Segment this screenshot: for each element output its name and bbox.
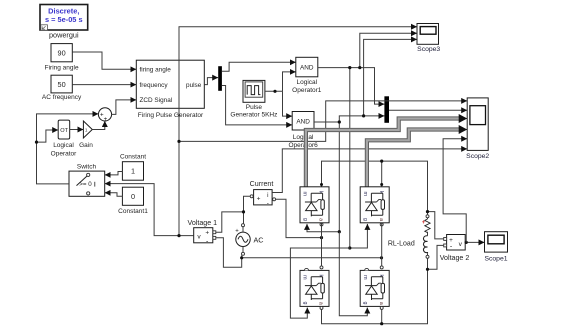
svg-text:AND: AND xyxy=(296,119,310,126)
svg-text:Scope1: Scope1 xyxy=(484,256,507,263)
svg-text:s = 5e-05 s: s = 5e-05 s xyxy=(45,15,83,24)
thyristor4 anode port circle xyxy=(380,306,383,309)
thyristor3 unconnected m port bump xyxy=(305,268,309,270)
wire: to AND1 input2 xyxy=(283,72,296,91)
svg-text:firing angle: firing angle xyxy=(140,67,172,74)
constant block Constant1 (0) xyxy=(118,187,148,215)
gain block xyxy=(79,121,93,149)
svg-text:Operator: Operator xyxy=(51,150,77,157)
thyristor T2 xyxy=(360,187,389,223)
svg-text:+: + xyxy=(104,116,108,123)
wire: V1 v output to switch control xyxy=(105,184,194,236)
wire: mux output to Scope2 input2 xyxy=(389,109,467,111)
svg-text:+: + xyxy=(257,195,261,202)
svg-text:+: + xyxy=(205,230,209,237)
svg-text:Voltage 1: Voltage 1 xyxy=(188,219,218,227)
wire: AND2 gate branch to thyristor4 gate xyxy=(339,232,367,316)
svg-text:OT: OT xyxy=(60,128,68,134)
thyristor3 anode port circle xyxy=(320,306,323,309)
wire: demux out2 to AND2 input2 xyxy=(222,86,292,125)
current measurement block xyxy=(250,180,276,207)
RL-Load series branch xyxy=(388,212,430,270)
thyristor T1 xyxy=(300,187,329,223)
svg-text:Gain: Gain xyxy=(79,142,93,149)
svg-text:>= 0: >= 0 xyxy=(79,181,92,188)
wire: Constant1 0 to switch input 3 xyxy=(105,193,123,197)
svg-text:Logical: Logical xyxy=(296,79,317,86)
thick wire: thyristor2 measurement to Scope2 input4 xyxy=(367,130,461,187)
logical operator AND1 xyxy=(292,57,322,94)
thyristor3 cathode port circle xyxy=(320,266,323,269)
subsystem U1 Firing Pulse Generator xyxy=(136,60,204,119)
wire: pulse output to demux xyxy=(204,78,218,85)
scope Scope3 xyxy=(417,24,440,54)
wire: DC+ bus from thyristor cathodes to RL load top xyxy=(322,161,428,212)
svg-text:0: 0 xyxy=(131,192,135,201)
sum block (zero-cross sum) xyxy=(98,108,111,123)
svg-text:AC: AC xyxy=(254,235,264,244)
wire: AND1 gate branch to thyristor3 gate xyxy=(290,248,349,318)
svg-text:Switch: Switch xyxy=(77,163,97,170)
svg-text:1: 1 xyxy=(131,167,135,176)
wire: constant 50 to frequency input xyxy=(72,84,136,86)
wire: V1 branch to Scope2 input1 xyxy=(179,101,467,141)
svg-text:Firing angle: Firing angle xyxy=(45,64,79,71)
switch block xyxy=(69,163,105,196)
svg-text:Scope2: Scope2 xyxy=(466,153,489,160)
svg-text:Operator1: Operator1 xyxy=(292,87,322,94)
wire: thyristor2 anode / thyristor4 cathode vertical xyxy=(381,223,383,266)
wire: AND1 branch down to thyristor gates xyxy=(349,68,351,248)
svg-text:+: + xyxy=(422,219,426,226)
svg-text:powergui: powergui xyxy=(49,31,79,40)
svg-text:RL-Load: RL-Load xyxy=(388,241,415,248)
wire: AND2 output to mux input2 xyxy=(314,116,384,122)
thyristor T3 xyxy=(300,270,329,306)
wire: switch output to sum left input xyxy=(37,114,99,184)
thyristor2 anode port circle xyxy=(380,223,383,226)
thyristor4 unconnected m port bump xyxy=(365,268,369,270)
wire: branch to NOT input xyxy=(37,130,59,142)
svg-text:AND: AND xyxy=(300,65,314,72)
wire: DC- bus from thyristor anodes to RL load bottom xyxy=(322,269,428,323)
svg-text:Logical: Logical xyxy=(53,142,74,149)
constant block Constant (1) xyxy=(120,154,146,181)
logical operator AND2 (Operator5) xyxy=(288,112,318,150)
svg-text:+: + xyxy=(235,228,239,234)
wire: thyristor1 anode / thyristor3 cathode vertical xyxy=(321,223,323,266)
svg-text:pulse: pulse xyxy=(186,82,202,89)
wire: Constant 1 to switch input 1 xyxy=(105,172,123,175)
svg-text:i: i xyxy=(267,192,268,199)
scope Scope1 xyxy=(484,232,507,263)
voltage measurement V2 xyxy=(440,235,470,262)
svg-text:-: - xyxy=(267,200,269,207)
wire: AND2 gate branch to thyristor1 gate xyxy=(307,224,339,232)
wire: NOT to Gain xyxy=(70,129,84,131)
svg-text:Logical: Logical xyxy=(293,134,314,141)
wire: V2 branch to Scope2 input5 xyxy=(443,139,467,243)
wire: V2 output to Scope1 xyxy=(465,241,484,243)
wire: Gain to sum bottom input xyxy=(92,121,105,130)
wire: AND1 gate branch to thyristor2 gate xyxy=(350,224,368,248)
svg-text:Generator 5KHz: Generator 5KHz xyxy=(230,112,277,119)
wire: AND2 branch down to thyristor1 gate xyxy=(338,122,340,232)
wire: to AND2 input1 xyxy=(283,91,293,116)
wire: constant 90 to firing angle input xyxy=(72,52,136,69)
wire: sum output to ZCD Signal input xyxy=(112,100,137,115)
thyristor1 anode port circle xyxy=(320,223,323,226)
voltage measurement V1 xyxy=(188,219,218,246)
svg-text:ZCD Signal: ZCD Signal xyxy=(140,97,173,104)
wire: demux out1 to AND1 input1 xyxy=(222,62,296,71)
svg-text:90: 90 xyxy=(58,48,66,57)
powergui block xyxy=(40,5,88,40)
svg-text:Constant: Constant xyxy=(120,154,146,161)
wire: AC- node (V1-, AC bottom, AC- bus) xyxy=(216,238,242,267)
constant block AC frequency (50) xyxy=(42,75,82,101)
scope Scope2 xyxy=(466,98,489,160)
wire: Current - to thyristor1 anode node xyxy=(276,199,322,237)
wire: RL top tap to Voltage2 + xyxy=(428,212,444,239)
wire: RL bottom tap to Voltage2 - xyxy=(428,245,444,269)
AC voltage source xyxy=(235,224,263,256)
svg-text:Scope3: Scope3 xyxy=(417,46,440,53)
logical operator NOT block xyxy=(51,120,77,157)
wire: AND2 branch up to Scope3 input3 xyxy=(364,39,417,116)
wire: AND1 branch up to Scope3 input2 xyxy=(360,33,417,67)
wire: V1 measurement riser to Scope3 input1 xyxy=(179,27,417,236)
svg-text:Firing Pulse Generator: Firing Pulse Generator xyxy=(138,112,204,119)
constant block Firing angle (90) xyxy=(45,44,79,72)
mux xyxy=(384,96,389,123)
svg-text:Pulse: Pulse xyxy=(246,104,263,111)
svg-text:Constant1: Constant1 xyxy=(118,208,148,215)
svg-text:AC frequency: AC frequency xyxy=(42,94,82,101)
demux after pulse output xyxy=(218,66,222,91)
svg-text:frequency: frequency xyxy=(140,82,169,89)
svg-text:Operator6: Operator6 xyxy=(288,142,318,149)
wire: pulse generator output xyxy=(265,90,283,92)
svg-text:1: 1 xyxy=(85,128,88,133)
wire: Current i output to Scope2 input6 xyxy=(272,149,467,193)
junction node xyxy=(35,141,38,144)
pulse generator 5KHz block xyxy=(230,80,277,118)
wire: AND1 output to mux input1 xyxy=(318,68,385,105)
wire: AC+ node (V1+, Current+, AC top) xyxy=(216,212,244,232)
svg-text:Current: Current xyxy=(250,180,274,188)
svg-text:Voltage 2: Voltage 2 xyxy=(440,254,470,262)
thyristor4 cathode port circle xyxy=(380,266,383,269)
thick wire: thyristor1 measurement to Scope2 input3 xyxy=(306,119,461,187)
thyristor T4 xyxy=(360,270,389,306)
svg-text:50: 50 xyxy=(58,80,66,89)
